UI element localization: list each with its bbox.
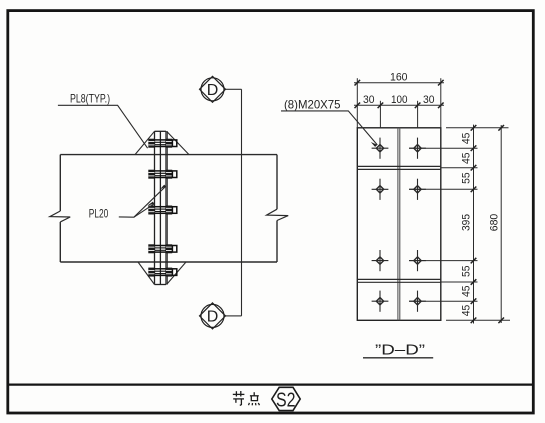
bolt row 1 [148,139,176,148]
bolt row 2 [148,170,176,179]
bolt row 4 [148,244,176,253]
dimension 30 100 30 [354,94,444,128]
label PL20 [89,185,166,221]
svg-text:S2: S2 [276,390,296,412]
svg-text:55: 55 [461,172,473,184]
bolt symbol row2 col1 [372,179,389,200]
svg-text:D: D [207,82,219,99]
label PL8(TYP.) [58,93,148,149]
svg-text:100: 100 [391,94,408,106]
dimension 680 [488,125,504,323]
label (8)M20X75 with leader [281,99,377,147]
section cut line D-D [226,89,242,316]
break symbol left [50,211,70,222]
svg-text:45: 45 [461,153,473,165]
svg-text:45: 45 [461,305,473,317]
title band separator [7,384,535,386]
bolt symbol row4 col2 [409,291,426,312]
svg-text:30: 30 [423,94,435,106]
section centre joint lines [398,128,400,320]
section marker D top [200,76,226,102]
bolt symbol row2 col2 [409,179,426,200]
svg-text:395: 395 [461,214,473,231]
bolt row 5 [148,268,176,277]
svg-text:45: 45 [461,286,473,298]
dimension 160 [354,71,444,128]
gusset PL8 bottom triangles [138,262,186,285]
section D-D plate outline [357,128,441,320]
svg-text:45: 45 [461,133,473,145]
section division line upper [357,166,441,169]
section marker D bottom [200,303,226,329]
right dimension labels [461,133,473,317]
right dimension chain line and ticks [471,125,477,324]
beam outline (elevation) [60,155,277,262]
bolt symbol row3 col1 [372,250,389,271]
hexagon S2 [272,387,300,411]
bolt symbol row3 col2 [409,250,426,271]
break symbol right [267,209,289,220]
section division line lower [357,279,441,282]
svg-text:D: D [207,309,219,326]
bolt symbol row1 col1 [372,138,389,159]
bolt row 3 [148,206,176,215]
svg-text:PL20: PL20 [89,208,109,221]
section title D-D [363,343,433,359]
splice plate PL20 (elevation) [155,131,168,284]
svg-text:PL8(TYP.): PL8(TYP.) [70,93,110,106]
svg-text:”D–D”: ”D–D” [375,343,425,359]
gusset PL8 top triangles [135,131,189,154]
bolt symbol row4 col1 [372,291,389,312]
right dimension chain extension lines [409,128,510,320]
title 节点 (hand-drawn glyphs) [233,391,260,405]
svg-text:160: 160 [390,71,408,83]
svg-text:(8)M20X75: (8)M20X75 [284,99,341,112]
svg-text:680: 680 [488,214,500,232]
bolt symbol row1 col2 [409,138,426,159]
svg-text:55: 55 [461,266,473,278]
svg-text:30: 30 [363,94,375,106]
